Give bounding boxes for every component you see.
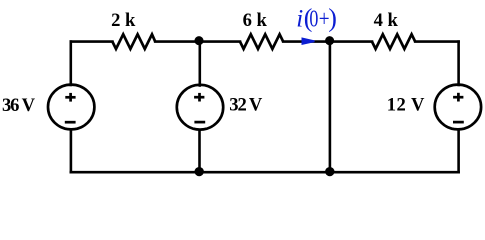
svg-text:2 k: 2 k [111, 10, 136, 31]
svg-text:0: 0 [309, 5, 318, 32]
svg-text:12 V: 12 V [387, 95, 425, 116]
svg-text:): ) [328, 4, 337, 33]
svg-text:i: i [296, 6, 303, 33]
svg-text:4 k: 4 k [374, 10, 399, 31]
svg-text:32 V: 32 V [229, 95, 263, 116]
svg-text:6 k: 6 k [243, 10, 268, 31]
svg-text:36 V: 36 V [2, 95, 36, 116]
